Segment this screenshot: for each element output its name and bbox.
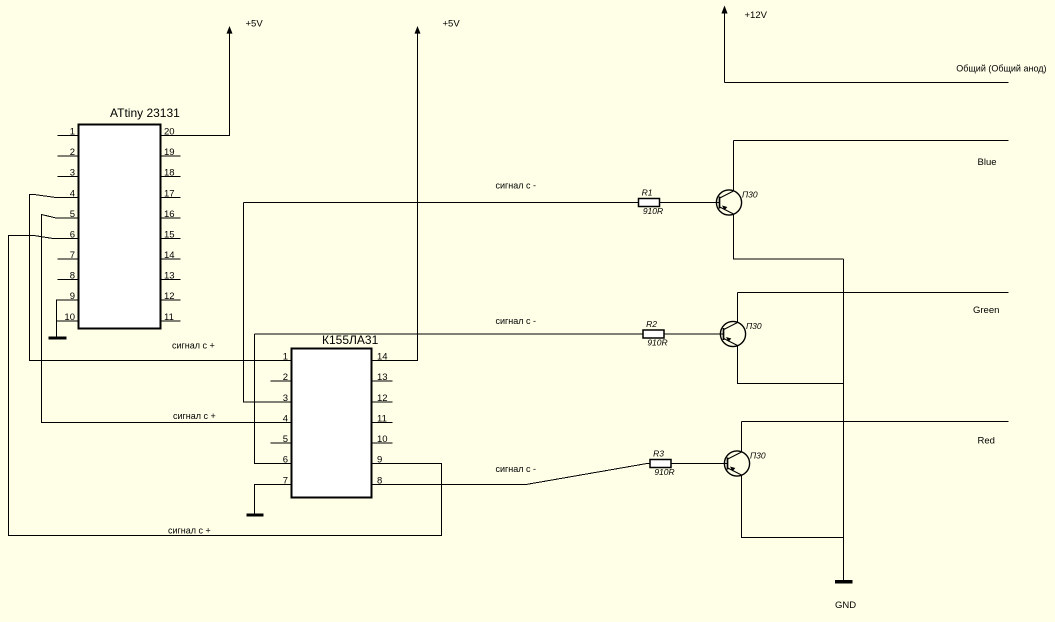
svg-text:5: 5 bbox=[283, 434, 288, 445]
svg-text:10: 10 bbox=[377, 434, 388, 445]
svg-text:П30: П30 bbox=[742, 190, 758, 200]
svg-text:4: 4 bbox=[283, 414, 288, 425]
svg-text:сигнал с -: сигнал с - bbox=[496, 181, 537, 191]
svg-text:16: 16 bbox=[164, 209, 175, 220]
svg-text:19: 19 bbox=[164, 147, 175, 158]
svg-text:9: 9 bbox=[70, 291, 75, 302]
svg-text:R1: R1 bbox=[642, 188, 653, 198]
svg-text:GND: GND bbox=[835, 600, 856, 611]
svg-text:Blue: Blue bbox=[978, 157, 997, 168]
svg-text:сигнал с -: сигнал с - bbox=[496, 316, 537, 326]
svg-text:1: 1 bbox=[283, 352, 288, 363]
svg-text:R3: R3 bbox=[653, 449, 664, 459]
svg-text:+5V: +5V bbox=[443, 19, 461, 30]
svg-text:6: 6 bbox=[70, 230, 75, 241]
svg-text:сигнал с -: сигнал с - bbox=[496, 464, 537, 474]
svg-text:910R: 910R bbox=[654, 467, 674, 477]
svg-text:910R: 910R bbox=[643, 206, 663, 216]
svg-text:7: 7 bbox=[283, 476, 288, 487]
svg-text:+5V: +5V bbox=[246, 19, 264, 30]
svg-text:13: 13 bbox=[377, 372, 388, 383]
svg-text:2: 2 bbox=[283, 372, 288, 383]
svg-text:Green: Green bbox=[973, 305, 999, 316]
svg-text:ATtiny 23131: ATtiny 23131 bbox=[110, 106, 180, 120]
svg-text:Red: Red bbox=[978, 436, 995, 447]
svg-text:15: 15 bbox=[164, 230, 175, 241]
svg-text:R2: R2 bbox=[646, 319, 657, 329]
svg-text:Общий (Общий анод): Общий (Общий анод) bbox=[956, 64, 1046, 74]
svg-text:3: 3 bbox=[70, 168, 75, 179]
svg-text:12: 12 bbox=[164, 291, 175, 302]
svg-text:910R: 910R bbox=[647, 337, 667, 347]
svg-text:14: 14 bbox=[164, 250, 175, 261]
svg-text:12: 12 bbox=[377, 393, 388, 404]
svg-text:3: 3 bbox=[283, 393, 288, 404]
svg-text:11: 11 bbox=[377, 414, 387, 425]
svg-text:сигнал с +: сигнал с + bbox=[173, 411, 216, 421]
svg-text:сигнал с +: сигнал с + bbox=[168, 526, 211, 536]
svg-text:20: 20 bbox=[164, 127, 175, 138]
svg-text:9: 9 bbox=[377, 455, 382, 466]
svg-text:8: 8 bbox=[377, 476, 382, 487]
svg-text:6: 6 bbox=[283, 455, 288, 466]
svg-text:1: 1 bbox=[70, 127, 75, 138]
svg-text:10: 10 bbox=[64, 312, 75, 323]
svg-text:П30: П30 bbox=[746, 321, 762, 331]
svg-text:+12V: +12V bbox=[745, 10, 768, 21]
svg-text:18: 18 bbox=[164, 168, 175, 179]
svg-text:14: 14 bbox=[377, 352, 388, 363]
svg-text:13: 13 bbox=[164, 271, 175, 282]
svg-text:11: 11 bbox=[164, 312, 174, 323]
svg-text:П30: П30 bbox=[750, 451, 766, 461]
svg-text:2: 2 bbox=[70, 147, 75, 158]
svg-text:8: 8 bbox=[70, 271, 75, 282]
svg-text:5: 5 bbox=[70, 209, 75, 220]
svg-text:сигнал с +: сигнал с + bbox=[172, 341, 215, 351]
svg-text:17: 17 bbox=[164, 189, 175, 200]
svg-text:7: 7 bbox=[70, 250, 75, 261]
svg-text:4: 4 bbox=[70, 189, 75, 200]
svg-text:К155ЛА31: К155ЛА31 bbox=[322, 333, 379, 347]
